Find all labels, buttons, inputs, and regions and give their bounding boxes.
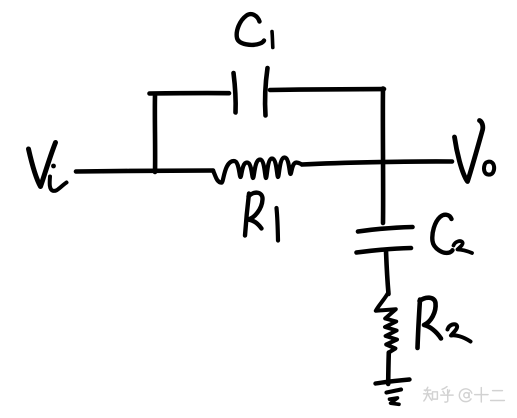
label C1 xyxy=(237,14,273,47)
wire vertical right (Vo node to C2) xyxy=(381,89,386,224)
wire C2 to R2 xyxy=(386,251,389,295)
capacitor C1 xyxy=(234,68,268,116)
wire R2 to ground xyxy=(386,353,391,385)
label Vo xyxy=(455,121,495,182)
capacitor C2 xyxy=(357,227,413,253)
wire node A up branch xyxy=(153,96,158,172)
label Vi xyxy=(29,143,67,191)
wire branch top to C1 xyxy=(150,91,230,96)
resistor R2 xyxy=(376,292,397,353)
label C2 xyxy=(432,215,472,253)
watermark 知乎 @十二 xyxy=(424,387,505,403)
label R1 xyxy=(245,193,278,241)
resistor R1 xyxy=(213,158,302,183)
ground xyxy=(376,380,410,405)
wire R1 to Vo xyxy=(302,161,452,164)
wire Vi to node A xyxy=(76,171,213,172)
label R2 xyxy=(418,298,471,348)
wire C1 to node Vo vertical xyxy=(270,89,384,90)
